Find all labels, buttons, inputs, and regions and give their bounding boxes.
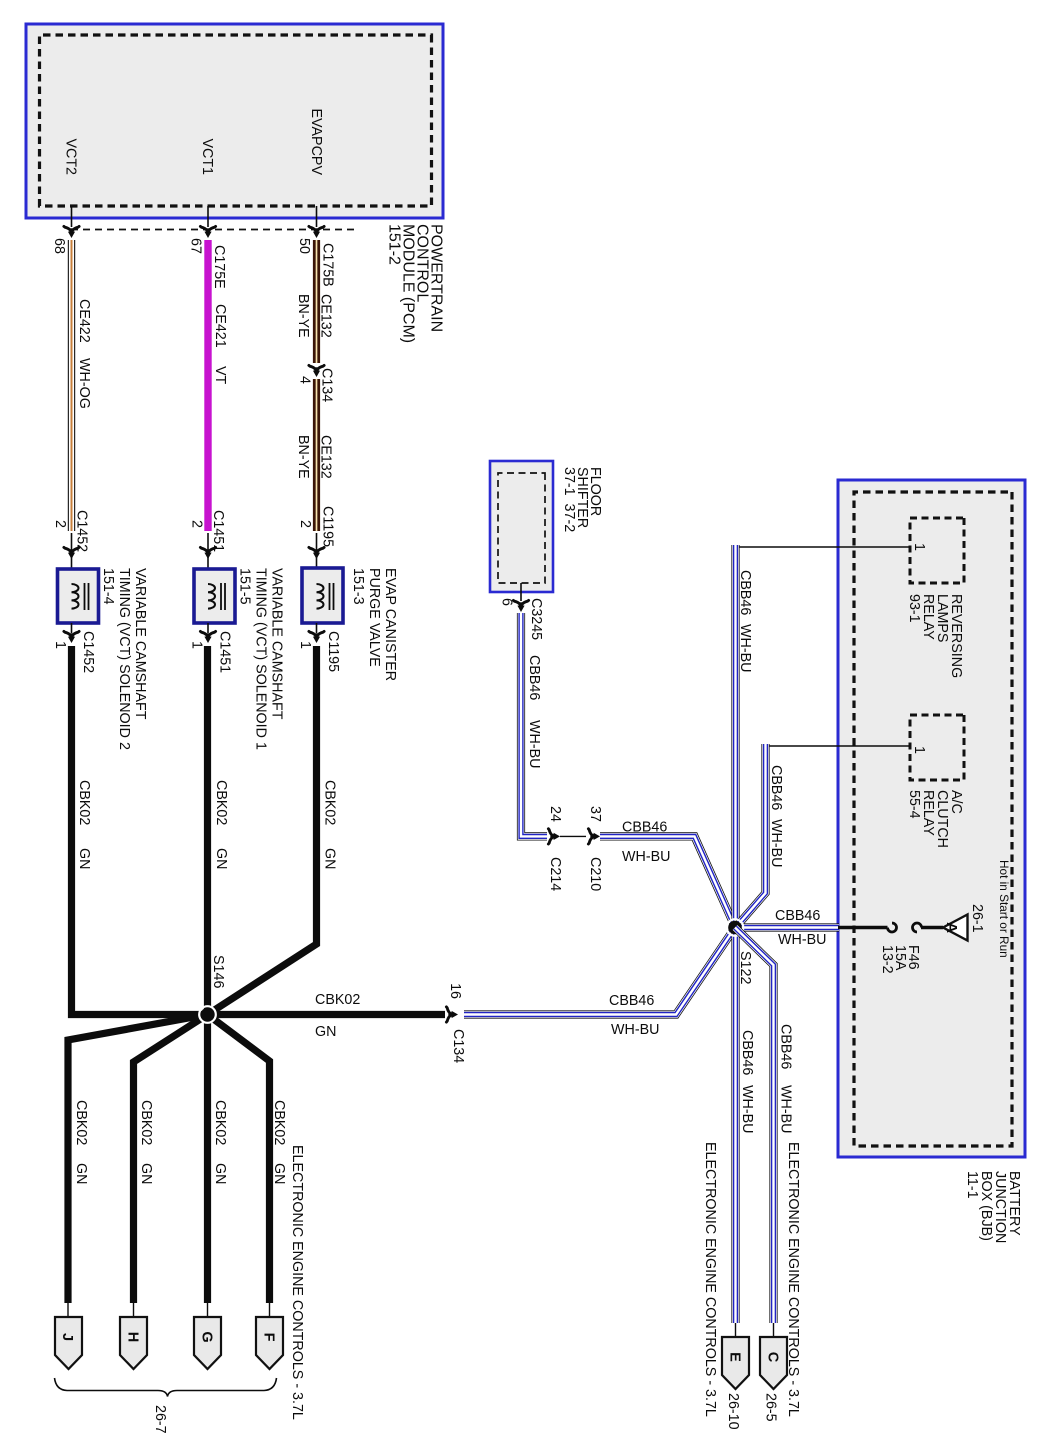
connector C1451 pin 2 arrow — [200, 547, 215, 559]
splice S122 — [727, 919, 744, 936]
svg-text:CBB46: CBB46 — [739, 1030, 755, 1075]
wire CBB46 WH-BU relay branch + E branch — [731, 545, 739, 1323]
svg-text:CBB46: CBB46 — [737, 570, 753, 615]
svg-text:CBK02: CBK02 — [271, 1100, 287, 1145]
svg-text:S122: S122 — [737, 951, 753, 984]
svg-text:VARIABLE CAMSHAFT: VARIABLE CAMSHAFT — [269, 568, 285, 720]
svg-text:151-4: 151-4 — [100, 568, 116, 605]
svg-text:REVERSING: REVERSING — [948, 594, 964, 678]
wire CBK02 GN from solenoid2 to S146 — [72, 646, 208, 1015]
svg-text:C: C — [765, 1352, 781, 1363]
svg-text:C210: C210 — [587, 857, 603, 891]
svg-text:EVAPCPV: EVAPCPV — [308, 109, 324, 176]
connector C134 arrow on S146 wire — [446, 1007, 458, 1022]
svg-text:1: 1 — [189, 641, 205, 649]
svg-text:CBB46: CBB46 — [609, 993, 654, 1009]
svg-text:C3245: C3245 — [528, 598, 544, 640]
svg-text:68: 68 — [51, 238, 67, 254]
svg-text:C1451: C1451 — [217, 631, 233, 673]
svg-text:GN: GN — [76, 848, 92, 869]
wire CBB46 WH-BU A/C relay branch — [737, 744, 766, 927]
svg-text:24: 24 — [547, 806, 563, 822]
svg-text:13-2: 13-2 — [879, 945, 895, 974]
svg-text:C1452: C1452 — [74, 510, 90, 552]
connector C175E pin 67 arrow — [200, 226, 215, 238]
svg-text:CBK02: CBK02 — [76, 780, 92, 825]
svg-text:Hot in Start or Run: Hot in Start or Run — [997, 860, 1011, 958]
svg-text:BATTERY: BATTERY — [1006, 1171, 1022, 1236]
wire CE421 VT — [204, 240, 211, 531]
svg-text:WH-OG: WH-OG — [76, 358, 92, 409]
svg-text:6: 6 — [499, 598, 515, 606]
wire stub pin 68 — [71, 206, 73, 227]
connector C1452 pin 1 arrow — [71, 623, 73, 633]
svg-text:11-1: 11-1 — [964, 1171, 980, 1199]
battery junction box (BJB) — [838, 480, 1025, 1157]
connector C210 pin 37 arrow — [588, 829, 600, 844]
svg-text:RELAY: RELAY — [920, 790, 936, 836]
EVAP canister purge valve box — [316, 533, 318, 623]
connector C175E pin 68 arrow — [64, 226, 79, 238]
svg-text:CBK02: CBK02 — [138, 1100, 154, 1145]
svg-text:LAMPS: LAMPS — [934, 594, 950, 642]
connector C1451 pin 1 arrow — [207, 623, 209, 633]
svg-text:C1452: C1452 — [80, 631, 96, 673]
connector C1195 pin 2 arrow — [309, 547, 324, 559]
svg-text:26-10: 26-10 — [725, 1393, 741, 1430]
svg-text:ELECTRONIC ENGINE CONTROLS - 3: ELECTRONIC ENGINE CONTROLS - 3.7L — [702, 1142, 718, 1417]
reversing lamps relay box — [910, 518, 964, 583]
splice S146 — [199, 1006, 216, 1023]
svg-text:CE421: CE421 — [212, 304, 228, 348]
svg-text:WH-BU: WH-BU — [739, 1085, 755, 1133]
svg-text:C134: C134 — [319, 368, 335, 402]
svg-text:151-2: 151-2 — [386, 224, 403, 265]
floor shifter inner dashed — [498, 473, 545, 583]
connector C175B pin 50 arrow — [309, 226, 324, 238]
connector C134 pin 4 arrow — [309, 365, 324, 377]
floor shifter box — [490, 461, 553, 592]
svg-text:GN: GN — [271, 1163, 287, 1184]
svg-text:WH-BU: WH-BU — [611, 1022, 659, 1038]
wire CBB46 from S122 to BJB fuse — [735, 923, 839, 931]
svg-text:CBB46: CBB46 — [768, 765, 784, 810]
svg-text:VCT1: VCT1 — [199, 138, 215, 175]
svg-text:BOX (BJB): BOX (BJB) — [978, 1171, 994, 1241]
svg-text:WH-BU: WH-BU — [778, 932, 826, 948]
connector C3245 pin 6 arrow — [513, 600, 528, 612]
wire from reversing lamps relay — [738, 546, 910, 548]
svg-text:CBB46: CBB46 — [775, 908, 820, 924]
svg-text:WH-BU: WH-BU — [768, 819, 784, 867]
svg-text:BN-YE: BN-YE — [295, 294, 311, 338]
svg-text:CE422: CE422 — [76, 299, 92, 343]
wire CBK02 GN vertical from S146 to C134 — [208, 1011, 446, 1018]
svg-text:H: H — [125, 1332, 141, 1342]
svg-text:PURGE VALVE: PURGE VALVE — [366, 568, 382, 667]
svg-text:GN: GN — [73, 1163, 89, 1184]
svg-text:JUNCTION: JUNCTION — [992, 1171, 1008, 1243]
fuse F46 15A — [838, 923, 943, 932]
VCT solenoid 2 box — [71, 533, 73, 623]
wire stub pin 50 — [316, 206, 318, 227]
svg-text:CE132: CE132 — [318, 294, 334, 338]
svg-text:BN-YE: BN-YE — [295, 435, 311, 479]
wire CBB46 WH-BU from C210 to S122 — [600, 836, 735, 926]
svg-text:TIMING (VCT) SOLENOID 1: TIMING (VCT) SOLENOID 1 — [253, 568, 269, 750]
svg-text:RELAY: RELAY — [920, 594, 936, 640]
terminal A triangle — [943, 915, 968, 941]
svg-text:GN: GN — [315, 1024, 336, 1040]
connector F — [269, 1303, 271, 1319]
splice S146 branch to F — [208, 1015, 270, 1304]
brace 26-7 — [55, 1378, 277, 1397]
wire CE132 BN-YE segment 1 — [313, 240, 320, 363]
svg-text:VT: VT — [212, 366, 228, 385]
svg-text:GN: GN — [138, 1163, 154, 1184]
svg-text:VARIABLE CAMSHAFT: VARIABLE CAMSHAFT — [132, 568, 148, 720]
thin wire between C214 and C210 — [560, 835, 586, 837]
solenoid 2 coil — [72, 584, 79, 609]
svg-text:50: 50 — [296, 238, 312, 254]
svg-text:GN: GN — [322, 848, 338, 869]
svg-text:C175E: C175E — [211, 245, 227, 289]
svg-text:1: 1 — [297, 641, 313, 649]
svg-text:E: E — [727, 1352, 743, 1362]
wire CBB46 WH-BU from C134 to S122 — [464, 928, 735, 1015]
svg-text:CBK02: CBK02 — [213, 780, 229, 825]
svg-text:C214: C214 — [547, 857, 563, 891]
svg-text:GN: GN — [212, 1163, 228, 1184]
svg-text:CBB46: CBB46 — [778, 1024, 794, 1069]
svg-text:C1195: C1195 — [320, 506, 336, 547]
PCM module box (POWERTRAIN CONTROL MODULE) — [26, 24, 443, 218]
svg-text:26-5: 26-5 — [763, 1393, 779, 1422]
svg-text:A: A — [943, 922, 960, 933]
svg-text:WH-BU: WH-BU — [737, 624, 753, 672]
wire CE132 BN-YE segment 2 — [313, 379, 320, 531]
svg-text:CBK02: CBK02 — [315, 992, 360, 1008]
svg-text:CLUTCH: CLUTCH — [934, 790, 950, 848]
svg-text:1: 1 — [911, 746, 927, 754]
svg-text:CE132: CE132 — [318, 435, 334, 479]
wire from A/C clutch relay — [767, 745, 910, 747]
wire stub pin 67 — [207, 206, 209, 227]
svg-text:G: G — [199, 1331, 215, 1342]
svg-text:37: 37 — [587, 806, 603, 822]
svg-text:C1451: C1451 — [210, 510, 226, 552]
svg-text:CBK02: CBK02 — [212, 1100, 228, 1145]
svg-text:C1195: C1195 — [325, 631, 341, 672]
wire CBB46 WH-BU C branch — [735, 928, 774, 1324]
wire CBK02 GN from purge valve to S146 — [208, 646, 317, 1015]
svg-text:CBB46: CBB46 — [526, 655, 542, 700]
svg-text:2: 2 — [52, 520, 68, 528]
BJB inner dashed outline — [854, 492, 1012, 1146]
svg-text:151-5: 151-5 — [237, 568, 253, 605]
svg-text:26-7: 26-7 — [152, 1405, 168, 1434]
svg-text:EVAP CANISTER: EVAP CANISTER — [382, 568, 398, 681]
connector E — [735, 1323, 737, 1339]
wire CE422 WH-OG — [68, 240, 75, 531]
svg-text:55-4: 55-4 — [906, 790, 922, 819]
svg-text:CBB46: CBB46 — [622, 820, 667, 836]
svg-text:S146: S146 — [210, 955, 226, 988]
svg-text:2: 2 — [297, 520, 313, 528]
svg-text:J: J — [59, 1333, 75, 1341]
connector H — [133, 1303, 135, 1319]
svg-text:GN: GN — [213, 848, 229, 869]
connector C214 pin 24 arrow — [548, 829, 560, 844]
svg-text:WH-BU: WH-BU — [622, 849, 670, 865]
svg-text:37-1 37-2: 37-1 37-2 — [561, 467, 577, 532]
connector G — [207, 1303, 209, 1319]
svg-text:2: 2 — [189, 520, 205, 528]
svg-text:67: 67 — [188, 238, 204, 254]
svg-text:F: F — [261, 1333, 277, 1342]
svg-text:151-3: 151-3 — [350, 568, 366, 605]
splice S146 branch to H — [134, 1015, 208, 1304]
svg-text:TIMING (VCT) SOLENOID 2: TIMING (VCT) SOLENOID 2 — [116, 568, 132, 750]
svg-text:A/C: A/C — [948, 790, 964, 814]
PCM connector face dashed line — [68, 229, 354, 231]
svg-text:CBK02: CBK02 — [73, 1100, 89, 1145]
wire CBB46 WH-BU from shifter — [521, 613, 547, 836]
svg-text:WH-BU: WH-BU — [526, 720, 542, 768]
connector C — [773, 1323, 775, 1339]
svg-text:VCT2: VCT2 — [63, 138, 79, 175]
svg-text:4: 4 — [297, 376, 313, 384]
svg-text:CBK02: CBK02 — [322, 780, 338, 825]
splice S146 branch to J — [68, 1015, 208, 1304]
A/C clutch relay box — [910, 715, 964, 780]
svg-text:WH-BU: WH-BU — [778, 1085, 794, 1133]
connector C1195 pin 1 arrow — [316, 623, 318, 633]
svg-text:ELECTRONIC ENGINE CONTROLS - 3: ELECTRONIC ENGINE CONTROLS - 3.7L — [289, 1145, 305, 1420]
VCT solenoid 1 box — [207, 533, 209, 623]
svg-text:1: 1 — [911, 543, 927, 551]
PCM inner dashed outline — [40, 35, 432, 206]
wire CBK02 GN from solenoid1 through S146 to G — [204, 646, 211, 1303]
svg-text:C175B: C175B — [320, 243, 336, 287]
svg-text:16: 16 — [447, 983, 463, 999]
svg-text:1: 1 — [52, 641, 68, 649]
svg-text:C134: C134 — [450, 1029, 466, 1063]
svg-text:93-1: 93-1 — [906, 594, 922, 623]
purge valve coil — [317, 584, 324, 609]
solenoid 1 coil — [208, 584, 215, 609]
connector J — [67, 1303, 69, 1319]
svg-text:26-1: 26-1 — [969, 904, 985, 933]
connector C1452 pin 2 arrow — [64, 547, 79, 559]
floor shifter pin 6 stub — [520, 583, 522, 601]
